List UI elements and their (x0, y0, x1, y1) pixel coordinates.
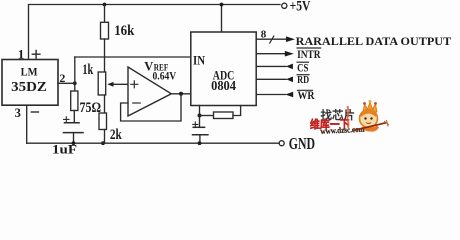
svg-text:0.64V: 0.64V (153, 69, 177, 83)
node junction top rail at ADC (220, 3, 224, 7)
svg-text:35DZ: 35DZ (11, 79, 47, 94)
ground rail (27, 142, 279, 144)
node junction 2k on ground rail (101, 141, 105, 145)
svg-text:8: 8 (261, 29, 267, 41)
wire ADC junction to capacitor (199, 116, 201, 128)
wire RD pin (256, 78, 286, 80)
wire top +5V rail (29, 5, 281, 60)
svg-text:1k: 1k (82, 62, 93, 78)
resistor R clock (214, 112, 234, 119)
watermark mascot (348, 100, 390, 132)
label CS overline (297, 61, 308, 63)
svg-text:IN: IN (193, 52, 206, 67)
terminal GND circle (279, 141, 284, 146)
node junction op-amp output (179, 92, 183, 96)
potentiometer R 1k (98, 72, 106, 95)
svg-text:0804: 0804 (211, 78, 236, 93)
wire 75 ohm to capacitor (73, 111, 75, 123)
svg-text:+5V: +5V (290, 0, 311, 14)
svg-text:75Ω: 75Ω (80, 100, 102, 116)
label RD overline (297, 74, 309, 76)
op-amp U1 triangle (128, 67, 171, 116)
capacitor C 1uF plus mark (64, 117, 69, 122)
svg-text:GND: GND (289, 134, 315, 153)
wire clock capacitor to ground (199, 135, 201, 144)
INTR arrow (285, 51, 294, 57)
wire pin2 riser to IN line (74, 57, 76, 83)
resistor R 2k (99, 113, 107, 130)
wire WR pin (256, 94, 285, 96)
node junction capacitor ground (72, 141, 76, 145)
capacitor C clock plus mark (193, 122, 198, 127)
CS arrow (286, 64, 293, 70)
svg-text:1uF: 1uF (52, 142, 77, 155)
capacitor C 1uF top plate (65, 122, 80, 124)
svg-text:INTR: INTR (297, 49, 321, 61)
svg-text:CS: CS (297, 63, 308, 75)
IC U2 ADC0804 box (191, 32, 256, 106)
wire LM35 pin3 to ground rail (26, 105, 28, 143)
svg-text:2k: 2k (110, 127, 122, 143)
wire to clock resistor (200, 115, 214, 117)
svg-text:16k: 16k (114, 23, 135, 39)
svg-text:RARALLEL DATA OUTPUT: RARALLEL DATA OUTPUT (296, 36, 452, 48)
wire INTR pin (256, 53, 285, 55)
op-amp plus input symbol (131, 81, 138, 88)
svg-text:3: 3 (15, 106, 21, 120)
wire 2k bottom lead (104, 130, 106, 144)
wire IN line to ADC (75, 56, 191, 58)
svg-text:1: 1 (18, 47, 25, 62)
node junction top rail at 16k (103, 3, 107, 7)
wire capacitor to ground rail (73, 133, 75, 144)
svg-text:RD: RD (297, 74, 309, 86)
wire op-amp output to ADC (171, 93, 191, 95)
capacitor C clock bottom plate (193, 134, 208, 136)
wire CS pin (256, 65, 286, 67)
label pin1 plus sign (32, 50, 40, 58)
terminal +5V circle (282, 3, 287, 8)
wire wiper to op-amp plus input (113, 83, 128, 85)
node junction clock capacitor ground (198, 141, 202, 145)
WR arrow (285, 92, 293, 98)
svg-text:2: 2 (59, 71, 65, 85)
wire ADC bottom left pin (199, 106, 201, 116)
svg-text:WR: WR (298, 90, 316, 102)
wire pot to 2k (104, 95, 106, 113)
wire 16k top lead (104, 5, 106, 23)
wire ADC top supply pin (221, 5, 223, 33)
data bus arrow (286, 36, 295, 42)
label pin3 minus sign (31, 111, 38, 113)
data bus slash (270, 36, 274, 43)
RD arrow (286, 77, 293, 83)
node junction ADC bottom (198, 114, 202, 118)
wire clock resistor to ADC pin (233, 106, 241, 116)
wire LM35 pin2 output (58, 82, 75, 84)
capacitor C 1uF bottom plate (64, 132, 84, 134)
potentiometer wiper arrow (107, 82, 113, 87)
wire 75 ohm top lead (74, 83, 76, 91)
wire feedback loop (121, 94, 181, 121)
label INTR overline (297, 47, 321, 49)
wire data bus pin (256, 38, 286, 40)
resistor R 75 ohm (71, 91, 78, 111)
node junction pin2 (73, 81, 77, 85)
capacitor C clock top plate (193, 126, 204, 128)
svg-text:LM: LM (21, 64, 38, 78)
wire 16k to 1k pot (104, 39, 106, 72)
label WR overline (298, 89, 313, 91)
op-amp minus input symbol (133, 102, 140, 104)
resistor R 16k (101, 22, 109, 39)
sensor U LM35DZ box (2, 60, 58, 106)
